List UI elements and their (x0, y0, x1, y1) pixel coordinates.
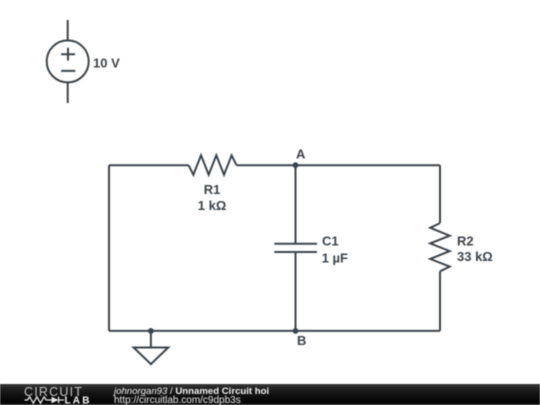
svg-text:B: B (297, 333, 306, 348)
svg-text:1 kΩ: 1 kΩ (198, 198, 227, 213)
wire V1 bottom lead (67, 82, 69, 103)
node A junction (293, 162, 299, 168)
footer bar (0, 384, 540, 405)
wire R2 bottom lead (439, 271, 441, 331)
wire node A to C1 top plate (295, 165, 297, 244)
wire top rail left (R1 left lead) (109, 164, 189, 166)
svg-text:A: A (296, 147, 306, 162)
wire left branch (108, 165, 110, 331)
resistor R2 (430, 223, 450, 271)
ground (134, 348, 169, 365)
svg-text:1 µF: 1 µF (322, 251, 348, 266)
resistor R1 (189, 155, 237, 175)
svg-text:R1: R1 (204, 182, 221, 197)
wire bottom rail (109, 330, 440, 332)
footer credit text (114, 387, 269, 397)
capacitor C1 (274, 244, 317, 252)
node B junction (293, 328, 299, 334)
svg-text:R2: R2 (457, 234, 474, 249)
ground junction (148, 328, 154, 334)
wire R1 right lead to node A (237, 164, 296, 166)
voltage source V1 (47, 40, 89, 82)
wire ground stub (150, 331, 152, 348)
svg-text:C1: C1 (322, 234, 339, 249)
svg-text:LAB: LAB (65, 395, 92, 405)
wire node A to top-right corner (296, 164, 441, 166)
svg-text:10 V: 10 V (93, 56, 120, 71)
footer url (114, 396, 241, 405)
wire V1 top lead (67, 20, 69, 41)
wire C1 bottom plate to node B (295, 252, 297, 331)
wire right branch upper (R2 top lead) (439, 165, 441, 223)
svg-text:33 kΩ: 33 kΩ (457, 249, 493, 264)
CircuitLab logo (0, 383, 110, 405)
